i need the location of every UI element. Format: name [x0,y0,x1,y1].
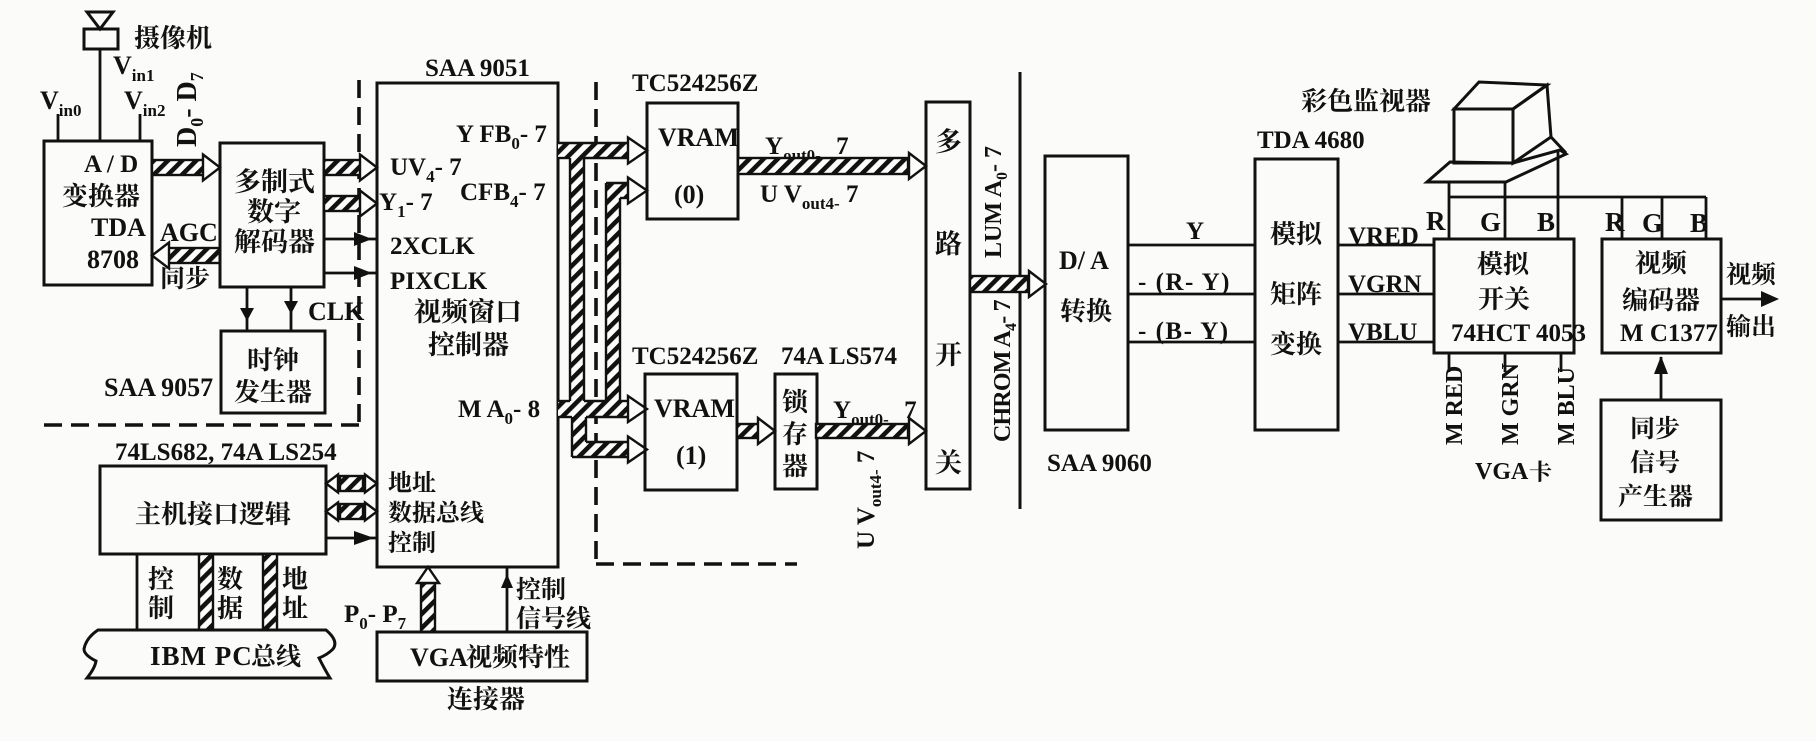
wire VGRN [1338,293,1434,296]
wire 2XCLK [324,238,377,241]
svg-text:- (B- Y): - (B- Y) [1138,318,1230,345]
bus Y1-7 decoder to SAA9051 [324,191,377,217]
camera icon [84,12,118,49]
svg-text:M RED: M RED [1442,366,1468,445]
svg-text:PIXCLK: PIXCLK [390,268,488,295]
label 锁 [783,389,808,414]
label 信号线 [517,606,591,630]
arrowhead ctrl [354,531,374,545]
wire B monitor [1557,150,1560,239]
svg-text:M GRN: M GRN [1498,362,1524,445]
arrowhead 2XCLK [354,232,372,246]
label camera 摄像机 [135,25,212,50]
A/D converter box TDA8708 [44,141,152,285]
wire Vin2 [139,114,142,141]
svg-text:D/ A: D/ A [1059,246,1109,275]
wire G monitor [1504,182,1507,239]
bus VRAM1 to latch [737,418,775,444]
svg-text:- (R- Y): - (R- Y) [1138,269,1231,296]
label 数 [218,566,243,590]
svg-text:A / D: A / D [84,151,138,178]
svg-text:VGA: VGA [410,643,468,672]
IBM PC bus banner [84,630,335,678]
label 转换 [1061,298,1112,323]
label 控 [148,566,173,590]
wire R-Y [1128,293,1255,296]
monitor icon [1427,82,1566,182]
wire ctrl to IBM bus [136,554,139,630]
arrowhead down 1 [240,308,254,321]
label 制 [149,595,173,619]
svg-text:CLK: CLK [308,297,365,326]
svg-text:D0- D7: D0- D7 [172,72,207,147]
wire ctrl host to SAA [326,537,377,540]
bus addr host-SAA bidir [326,475,377,493]
bus D0-D7 A/D to decoder [152,155,220,181]
label 控制2 [516,577,565,600]
label 地2 [283,566,308,589]
svg-text:2XCLK: 2XCLK [390,233,475,260]
svg-text:G: G [1642,208,1663,238]
bus AGC decoder to A/D [152,243,220,269]
label 据 [217,595,242,619]
label 矩阵 [1271,281,1322,305]
label 同步 sync [162,266,209,290]
wire MGRN stub [1504,353,1507,372]
bus VRAM0 to mux [738,153,926,179]
bus YFB to VRAM0 with branch [558,138,647,463]
separator vertical line [1019,72,1022,509]
decoder box 多制式数字解码器 [220,143,324,287]
label 输出 [1726,314,1774,338]
wire R monitor [1448,182,1451,239]
wire decoder to clock 2 [290,287,293,331]
svg-text:Y: Y [1186,218,1204,245]
label 址2 [282,595,307,618]
label 模拟2 [1477,251,1528,275]
wire VRED [1338,244,1434,247]
wire PIXCLK [324,272,377,275]
VRAM1 box [645,374,737,490]
label 器 [783,453,808,477]
label 彩色监视器 [1302,88,1431,113]
multiplexer box 多路开关 [926,102,970,489]
wire ctrl signal line [506,567,509,632]
bus UV4-7 decoder to SAA9051 [324,155,377,181]
wire Vin1 camera to A/D [99,49,102,141]
sync generator box 同步信号产生器 [1601,400,1721,520]
label 多 [936,128,961,153]
label 关 [936,449,962,474]
wire G enc [1661,197,1664,239]
label 视频窗口 [414,298,519,324]
label 信号 [1631,450,1680,474]
label 时钟 [249,347,299,371]
wire B-Y [1128,341,1255,344]
label 路 [935,230,961,255]
svg-text:8708: 8708 [87,245,139,274]
dashed boundary VRAM section [596,82,797,564]
wire RGB bus horizontal [1449,196,1706,199]
arrowhead sync [1654,356,1668,374]
host interface box 主机接口逻辑 [100,466,326,554]
label 存 [783,421,807,445]
dashed boundary SAA9057 [44,80,359,425]
svg-text:VRED: VRED [1348,223,1419,250]
wire video out [1721,298,1764,301]
label 连接器 [448,686,525,710]
svg-text:TC524256Z: TC524256Z [632,343,758,370]
label 控制 [388,531,435,554]
bus latch to mux [816,418,926,444]
label 地址 [388,471,435,493]
svg-text:B: B [1537,207,1555,237]
label 主机接口逻辑 [136,501,291,525]
arrowhead PIXCLK [354,266,372,280]
svg-text:M C1377: M C1377 [1620,320,1718,347]
analog switch box 74HCT4053 [1434,239,1574,353]
arrowhead down 2 [284,301,298,314]
svg-text:74A LS574: 74A LS574 [781,343,898,370]
svg-text:IBM PC: IBM PC [150,641,253,671]
label 控制器 [428,331,508,356]
wire sync to encoder [1660,357,1663,400]
D/A converter box SAA9060 [1045,156,1128,430]
svg-text:VGRN: VGRN [1348,271,1422,298]
wire decoder to clock 1 [246,287,249,331]
svg-text:VBLU: VBLU [1348,319,1417,346]
svg-text:VRAM: VRAM [658,123,739,152]
svg-text:M BLU: M BLU [1554,367,1580,445]
bus data to IBM [199,554,213,630]
bus P0-P7 VGA to SAA [417,567,439,632]
svg-text:CHROM A4- 7: CHROM A4- 7 [990,299,1020,442]
label 同步2 [1632,416,1679,440]
arrowhead video out [1761,291,1779,307]
label 变换2 [1271,331,1322,356]
svg-text:VRAM: VRAM [654,394,735,423]
svg-text:VGA: VGA [1475,459,1529,485]
latch box 锁存器 [775,374,817,489]
bus addr to IBM [263,554,277,630]
svg-text:R: R [1426,206,1446,236]
svg-text:(1): (1) [676,441,706,470]
svg-text:TDA 4680: TDA 4680 [1257,127,1365,154]
svg-text:TC524256Z: TC524256Z [632,70,758,97]
label 解码器 [235,228,315,253]
clock generator box 时钟发生器 [221,331,325,413]
label 视频enc [1635,250,1686,274]
label 总线 [252,644,301,668]
svg-text:SAA 9051: SAA 9051 [425,55,530,82]
svg-text:R: R [1605,207,1625,237]
svg-text:SAA 9057: SAA 9057 [104,373,213,402]
label 多制式 [235,168,314,193]
wire R enc [1621,197,1624,239]
svg-text:TDA: TDA [91,213,146,242]
wire MBLU stub [1560,353,1563,372]
VGA feature connector box [377,632,587,681]
VRAM0 box [647,103,738,219]
label 开关 [1479,286,1529,310]
video encoder box MC1377 [1602,239,1721,353]
wire B enc [1705,197,1708,239]
svg-text:74HCT 4053: 74HCT 4053 [1451,320,1586,347]
svg-text:B: B [1690,208,1708,238]
matrix box 模拟矩阵变换 [1255,159,1338,430]
bus data host-SAA bidir [326,503,377,521]
label 视频out [1726,262,1775,286]
arrowhead ctrl signal [501,574,513,588]
label 编码器 [1623,287,1700,312]
wire Y [1128,244,1255,247]
label 模拟 [1270,221,1321,245]
video window controller box SAA9051 [377,83,558,567]
bus mux to D/A [970,271,1046,297]
svg-text:SAA 9060: SAA 9060 [1047,450,1152,477]
label 产生器 [1619,484,1693,508]
wire MRED stub [1448,353,1451,372]
svg-text:G: G [1480,207,1501,237]
wire Vin0 [57,114,60,141]
svg-text:74LS682, 74A LS254: 74LS682, 74A LS254 [115,439,337,466]
svg-text:(0): (0) [674,180,704,209]
label 数字 [248,198,300,223]
label 数据总线 [389,501,484,524]
svg-text:LUM A0- 7: LUM A0- 7 [981,146,1011,258]
label 变换器 [63,183,140,208]
label 开 [936,342,961,367]
label 发生器 [235,379,312,403]
wire VBLU [1338,341,1434,344]
